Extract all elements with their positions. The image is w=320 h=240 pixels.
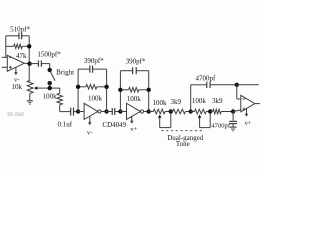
inverter U2B (127, 103, 141, 119)
label 100k tone A (153, 99, 168, 107)
label Tone (176, 140, 190, 148)
resistor 100k fb1 (78, 85, 107, 90)
wire fb1 left (77, 69, 79, 111)
U3 power arrow v+ (245, 109, 249, 117)
watermark m net (7, 109, 25, 118)
switch lever (50, 72, 55, 81)
label v+ U3 (245, 120, 252, 127)
svg-text:v+: v+ (130, 126, 137, 133)
wire to U3 minus (237, 85, 241, 99)
wire fb2 left (119, 71, 121, 112)
potentiometer 100k tone A (153, 109, 171, 114)
label 47k (16, 52, 27, 60)
switch Bright terminal B (48, 81, 52, 85)
inverter U2A (84, 103, 98, 119)
U1 power arrow v- (14, 68, 18, 76)
svg-text:100k: 100k (153, 99, 168, 107)
U2B bubble (140, 110, 143, 113)
wire out2 (144, 111, 149, 113)
wire in1 (78, 111, 84, 113)
svg-text:100k: 100k (88, 95, 103, 103)
label 390pf* fb2 (126, 57, 146, 65)
wire fb2 right (148, 71, 150, 112)
junction fb1 left (76, 85, 80, 89)
capacitor 1500pf (30, 60, 50, 69)
node inverter1 out (104, 109, 108, 113)
svg-text:3k9: 3k9 (171, 98, 182, 106)
svg-text:v+: v+ (245, 120, 252, 127)
junction tone C (189, 109, 193, 113)
wire wiper (44, 87, 59, 89)
svg-text:m net: m net (7, 109, 25, 118)
svg-text:Bright: Bright (56, 68, 74, 76)
label 100k tone B (192, 97, 207, 105)
junction tone B (169, 109, 173, 113)
wiper arrow tone B (198, 115, 202, 128)
wire out1 (101, 111, 107, 113)
label CD4049 (102, 121, 126, 129)
label 1500pf* (37, 51, 61, 59)
wire U3 out (255, 103, 260, 105)
resistor 3k9 B (210, 109, 233, 114)
label v+ U2B (130, 126, 137, 133)
resistor 47k (6, 44, 29, 48)
U2A bubble (98, 110, 101, 113)
node inverter1 in (76, 109, 80, 113)
wiper arrow tone A (158, 115, 162, 128)
wire feedback left (5, 36, 7, 58)
node N1 (27, 62, 31, 66)
junction fb1 right (104, 85, 108, 89)
ground under 10k (27, 93, 33, 104)
svg-text:510pf*: 510pf* (10, 26, 30, 34)
junction shunt cap (231, 109, 235, 113)
U2A power arrow (88, 117, 92, 126)
label v- U1 (14, 77, 19, 84)
resistor 100k fb2 (120, 88, 148, 93)
svg-text:10k: 10k (12, 83, 23, 91)
U1 input stubs (2, 57, 8, 67)
wire U1 out (24, 62, 30, 64)
wiper arrow 10k (34, 86, 44, 90)
node inverter2 in (118, 109, 122, 113)
svg-text:4700pf: 4700pf (195, 75, 216, 83)
node inverter2 out (147, 109, 151, 113)
svg-text:CD4049: CD4049 (102, 121, 126, 129)
wire output top (237, 84, 259, 86)
svg-text:100k: 100k (192, 97, 207, 105)
label Dual-ganged (167, 134, 204, 142)
label v- U2A (87, 129, 92, 136)
svg-text:3k9: 3k9 (212, 97, 223, 105)
label 100k fb2 (127, 95, 142, 103)
label 100k input (43, 93, 58, 101)
capacitor 4700pf shunt (229, 112, 237, 127)
label 3k9 A (171, 98, 182, 106)
svg-text:100k: 100k (43, 93, 58, 101)
resistor 3k9 A (171, 109, 191, 114)
junction wiper/switch (48, 86, 52, 90)
U2B power arrow (130, 116, 134, 124)
junction fb top (235, 83, 239, 87)
switch Bright terminal A (48, 68, 52, 72)
label Bright (56, 68, 74, 76)
dashed gang link (161, 130, 202, 132)
svg-text:100k: 100k (127, 95, 142, 103)
potentiometer 100k tone B (191, 109, 211, 114)
junction fb2 left (118, 88, 122, 92)
wire fb top vertical (190, 85, 192, 112)
potentiometer 10k (27, 80, 33, 93)
wire wiper B (200, 112, 211, 128)
resistor 100k input (57, 88, 62, 112)
wire tone (149, 111, 154, 113)
wire node column (28, 36, 30, 81)
label 4700pf top (195, 75, 216, 83)
svg-text:390pf*: 390pf* (84, 57, 104, 65)
label 0.1uf (58, 121, 73, 129)
capacitor 0.1uf (60, 108, 78, 116)
wire wiper A (160, 112, 171, 128)
svg-text:1500pf*: 1500pf* (37, 51, 61, 59)
ground shunt (230, 127, 237, 131)
label 3k9 B (212, 97, 223, 105)
wire to U3 plus (233, 110, 241, 112)
label 390pf* fb1 (84, 57, 104, 65)
junction 47k/510pf (27, 44, 31, 48)
svg-text:Tone: Tone (176, 140, 190, 148)
capacitor interstage (107, 108, 121, 115)
wire switch to wiper (49, 83, 51, 88)
label 100k fb1 (88, 95, 103, 103)
capacitor 510pf (6, 33, 29, 40)
svg-text:47k: 47k (16, 52, 27, 60)
capacitor 390pf fb2 (120, 67, 148, 74)
capacitor 4700pf top (191, 82, 237, 88)
label 4700pf shunt (211, 123, 230, 130)
wire fb1 right (106, 69, 108, 111)
label 10k (12, 83, 23, 91)
svg-text:390pf*: 390pf* (126, 57, 146, 65)
junction fb2 right (147, 88, 151, 92)
label 510pf* (10, 26, 30, 34)
op-amp U1 (7, 55, 24, 71)
op-amp U3 (241, 95, 255, 112)
svg-text:4700pf: 4700pf (211, 123, 230, 130)
capacitor 390pf fb1 (78, 66, 107, 73)
junction tone D (208, 109, 212, 113)
svg-text:0.1uf: 0.1uf (58, 121, 73, 129)
wire in2 (120, 111, 126, 113)
svg-text:v-: v- (87, 129, 92, 136)
